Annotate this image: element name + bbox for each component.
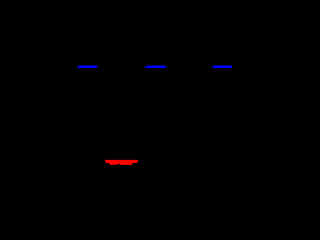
- red curved plate (dish), lower slab: [109, 163, 132, 165]
- element E2 (middle blue lens/disk body): [144, 66, 167, 69]
- notch in dish bottom: [117, 163, 120, 166]
- red curved plate (dish), upper slab: [105, 160, 139, 163]
- element E1 (left blue lens/disk body): [77, 66, 98, 69]
- element E3 (right blue lens/disk body): [212, 66, 233, 69]
